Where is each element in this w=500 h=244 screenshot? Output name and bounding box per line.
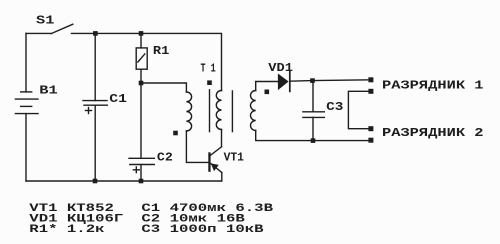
- svg-text:VT1: VT1: [224, 150, 244, 164]
- wire primary to collector: [221, 130, 223, 147]
- wire secondary bottom rail: [256, 131, 371, 141]
- transformer T1 primary winding: [216, 91, 221, 130]
- node junction top C1: [93, 31, 98, 36]
- node junction bottom C1: [93, 179, 98, 184]
- resistor R1: [136, 48, 147, 69]
- node polarity mark base winding: [173, 131, 178, 136]
- node terminal 1b: [368, 89, 373, 94]
- node junction C3 bottom: [311, 138, 316, 143]
- node polarity mark secondary winding: [265, 90, 270, 95]
- wire diode to terminal 1: [290, 80, 371, 81]
- wire C2 bottom lead: [140, 165, 142, 182]
- wire C1 top lead: [94, 33, 96, 100]
- wire left rail: [25, 33, 27, 92]
- svg-text:B1: B1: [39, 83, 57, 97]
- transformer T1 secondary winding: [250, 91, 255, 131]
- wire C2 top lead: [140, 83, 142, 158]
- wire secondary top to diode: [256, 82, 278, 91]
- diode VD1: [278, 72, 290, 92]
- wire top rail: [72, 33, 222, 90]
- wire emitter to bottom rail: [221, 173, 223, 182]
- transistor VT1: [208, 147, 222, 173]
- transformer T1 core line 2: [231, 91, 233, 132]
- wire terminal 1b to 2a: [348, 91, 368, 128]
- node junction C3 top: [310, 78, 315, 83]
- svg-text:T 1: T 1: [201, 62, 216, 76]
- wire C1 bottom lead: [94, 105, 96, 181]
- capacitor C2: [129, 158, 154, 172]
- wire base winding to base: [186, 131, 208, 162]
- svg-text:C1: C1: [109, 92, 127, 106]
- svg-text:C3: C3: [326, 100, 343, 114]
- transformer T1 base winding: [186, 92, 191, 131]
- node terminal 2a: [368, 126, 373, 131]
- wire R1 bottom lead: [140, 69, 142, 83]
- wire top rail left segment: [26, 32, 51, 34]
- node terminal 2b: [368, 138, 373, 143]
- wire left rail lower: [25, 114, 27, 181]
- wire bottom rail: [26, 180, 222, 182]
- wire R1 top lead: [140, 33, 142, 48]
- svg-text:C3 1000п 10кВ: C3 1000п 10кВ: [141, 224, 264, 236]
- transformer T1 core line 1: [209, 90, 211, 132]
- switch S1: [51, 24, 73, 33]
- svg-text:РАЗРЯДНИК 1: РАЗРЯДНИК 1: [382, 79, 484, 93]
- capacitor C3: [303, 112, 324, 118]
- svg-text:R1: R1: [153, 44, 169, 58]
- capacitor C1: [83, 101, 107, 114]
- svg-text:C2: C2: [157, 151, 173, 165]
- node terminal 1a: [368, 77, 373, 82]
- wire C3 bottom lead: [312, 117, 314, 140]
- svg-text:R1* 1.2к: R1* 1.2к: [29, 224, 105, 236]
- svg-text:РАЗРЯДНИК 2: РАЗРЯДНИК 2: [382, 126, 484, 140]
- node junction R1 bottom: [139, 81, 144, 86]
- node polarity mark primary winding: [207, 80, 212, 85]
- node junction bottom C2: [139, 179, 144, 184]
- wire C3 top lead: [312, 81, 314, 112]
- svg-text:VD1: VD1: [268, 61, 293, 75]
- svg-text:S1: S1: [36, 14, 54, 28]
- battery B1: [15, 92, 38, 114]
- wire to base winding: [141, 83, 186, 92]
- node junction top R1: [139, 31, 144, 36]
